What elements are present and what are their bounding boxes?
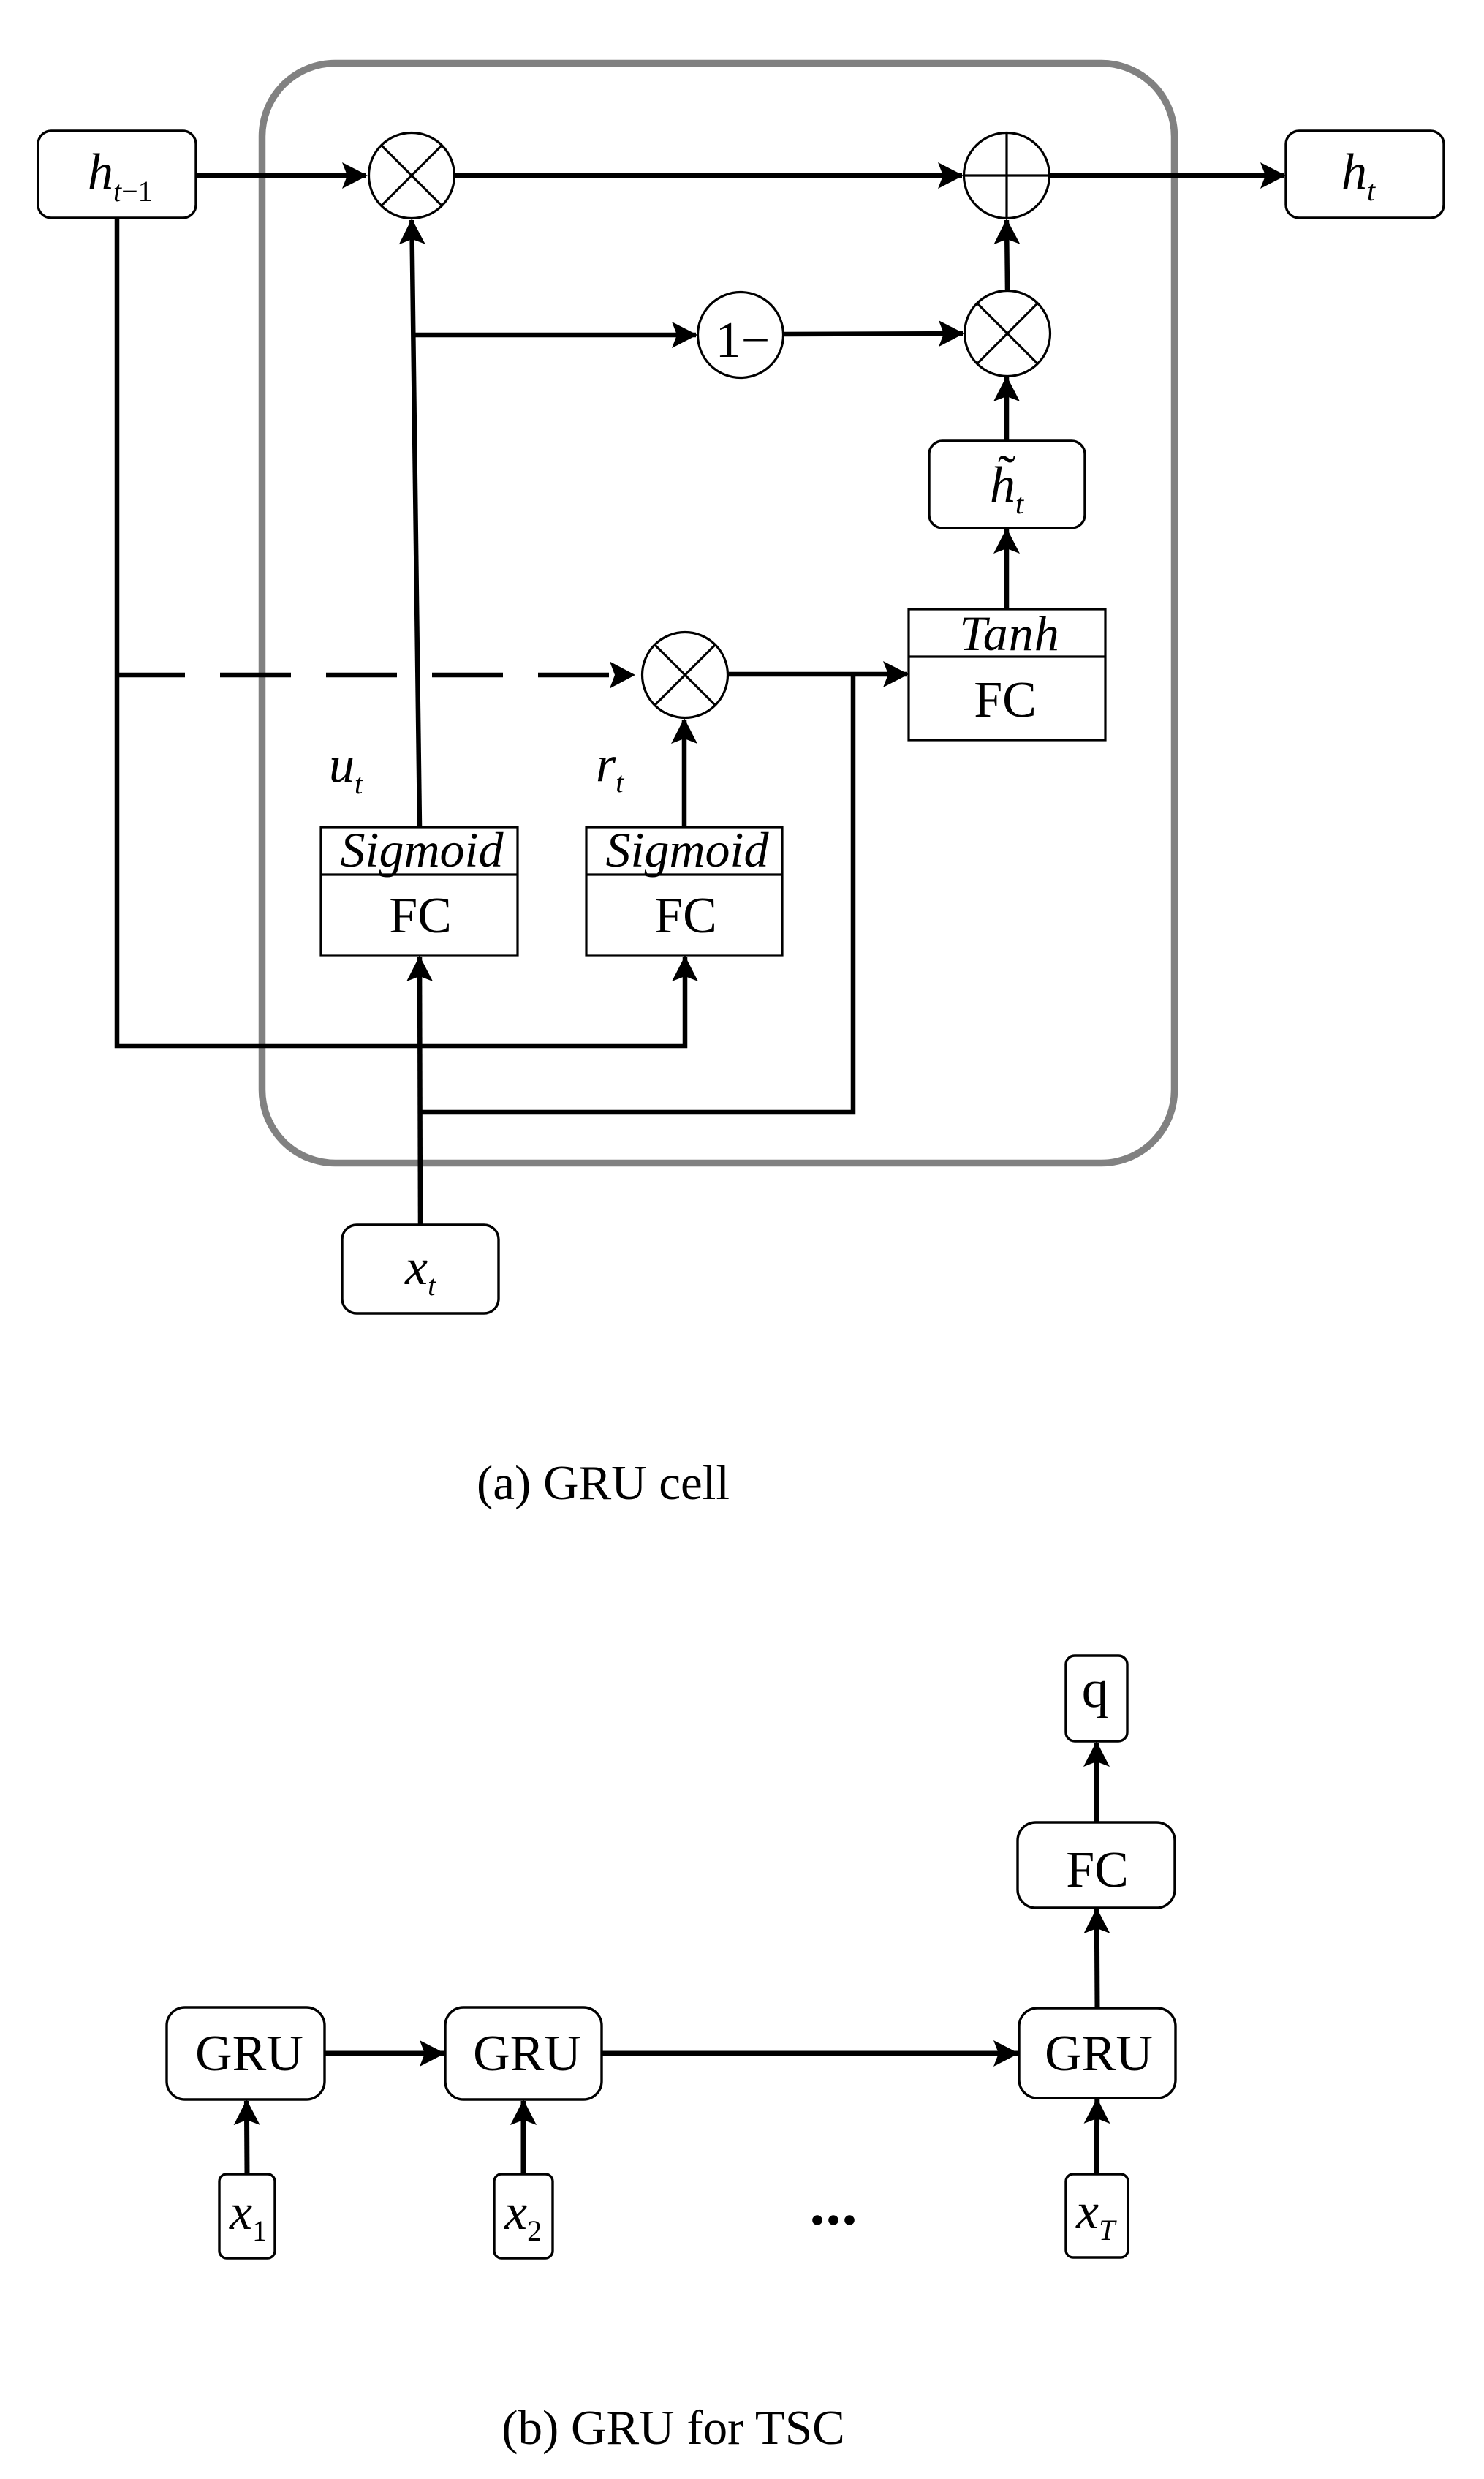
wire x_1 up to GRU1	[244, 2101, 250, 2174]
one-minus node	[698, 293, 784, 378]
wire FC(b) up to q	[1094, 1743, 1099, 1822]
svg-text:(a) GRU cell: (a) GRU cell	[477, 1456, 730, 1510]
plus node	[964, 133, 1050, 219]
svg-text:1−: 1−	[716, 312, 770, 369]
wire multiply X1 to plus node	[454, 173, 962, 178]
svg-text:Tanh: Tanh	[959, 605, 1060, 661]
svg-text:FC: FC	[654, 888, 717, 944]
wire h_{t-1} down then right, arrow up into Sigmoid2	[117, 218, 685, 1046]
ellipsis dots	[812, 2215, 855, 2225]
svg-text:q: q	[1082, 1659, 1109, 1718]
box GRU1	[167, 2007, 325, 2099]
svg-text:rt: rt	[596, 736, 624, 799]
Sigmoid FC box 1	[321, 822, 518, 956]
wire multiply X2 up into plus node	[1007, 220, 1007, 290]
svg-text:FC: FC	[1066, 1842, 1129, 1898]
Tanh FC box	[909, 605, 1105, 740]
multiply node X3	[643, 633, 728, 718]
svg-text:ut: ut	[329, 737, 363, 800]
multiply node X2	[965, 291, 1050, 377]
wire x_t up into Sigmoid1	[420, 957, 420, 1225]
wire GRU1 to GRU2	[325, 2051, 444, 2056]
wire junction down from Tanh input, left to x_t line	[420, 674, 853, 1112]
svg-text:Sigmoid: Sigmoid	[341, 822, 504, 878]
box x_1	[219, 2174, 275, 2258]
box GRU3	[1019, 2008, 1176, 2098]
wire r_t from Sigmoid2 up into multiply X3	[682, 720, 687, 827]
wire multiply X3 to Tanh FC box	[729, 672, 907, 677]
wire h_{t-1} to multiply node X1	[196, 173, 366, 178]
svg-text:FC: FC	[974, 672, 1037, 728]
dashed wire from h_{t-1} line to multiply X3	[117, 673, 609, 678]
svg-text:Sigmoid: Sigmoid	[606, 822, 770, 878]
svg-text:GRU: GRU	[473, 2026, 581, 2082]
multiply node X1	[369, 133, 455, 219]
wire Tanh box up into h-tilde	[1004, 529, 1010, 609]
wire u_t from Sigmoid1 up into multiply X1	[412, 220, 420, 827]
svg-text:GRU: GRU	[1045, 2026, 1153, 2082]
wire x_T up to GRU3	[1094, 2099, 1100, 2174]
box x_T	[1066, 2174, 1128, 2257]
GRU cell outer border	[262, 64, 1175, 1163]
box x_2	[494, 2174, 553, 2258]
arrowhead of dashed wire	[610, 662, 635, 689]
wire GRU3 up to FC	[1094, 1909, 1100, 2008]
wire branch from u_t line to 1-minus node	[414, 333, 696, 338]
wire 1-minus to multiply X2	[784, 333, 963, 334]
wire plus node to h_t	[1050, 173, 1284, 178]
wire h-tilde up into multiply X2	[1004, 377, 1010, 441]
svg-text:(b) GRU for TSC: (b) GRU for TSC	[501, 2401, 845, 2455]
svg-text:GRU: GRU	[195, 2026, 303, 2082]
FC box (b)	[1018, 1822, 1175, 1908]
wire GRU2 to GRU3	[602, 2051, 1018, 2056]
wire x_2 up to GRU2	[521, 2101, 526, 2174]
svg-text:˜: ˜	[998, 445, 1015, 503]
box GRU2	[445, 2007, 602, 2099]
box q	[1066, 1656, 1127, 1741]
box x_t	[342, 1225, 499, 1313]
Sigmoid FC box 2	[586, 822, 782, 956]
svg-text:FC: FC	[389, 888, 452, 944]
box h-tilde_t	[929, 441, 1085, 528]
box h_{t-1}	[38, 131, 196, 218]
box h_t	[1286, 131, 1444, 218]
